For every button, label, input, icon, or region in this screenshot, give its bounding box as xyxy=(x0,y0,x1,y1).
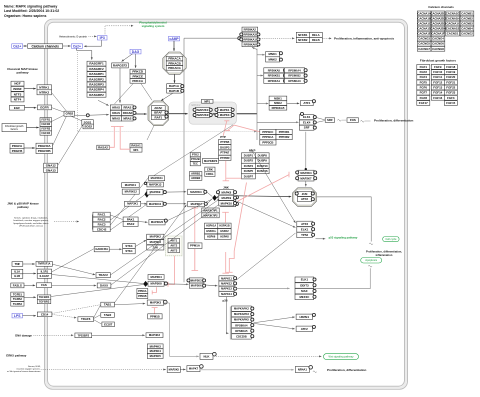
gene box DDIT3 p38target xyxy=(295,283,314,288)
gene box MAP3K8 xyxy=(148,281,164,286)
dotted arrow RSK to NFKB xyxy=(260,37,295,39)
wire ERK output main xyxy=(236,113,257,115)
inhibition DUSP to p38 diagonal xyxy=(226,183,246,273)
legend box FGF22 xyxy=(444,85,457,90)
label Heterotrimeric G-protein xyxy=(59,34,87,38)
legend box FGF9 xyxy=(431,65,444,70)
ligand box NTF4 xyxy=(11,97,24,102)
inhibition PPM1B to MAP3K3 xyxy=(152,308,158,314)
wire junction1 lines xyxy=(149,193,150,194)
svg-text:Fibroblast growth factors: Fibroblast growth factors xyxy=(420,58,457,62)
phospho circle MAP2K4 center xyxy=(204,190,207,193)
svg-text:PTK2: PTK2 xyxy=(192,153,199,157)
svg-text:MSK2: MSK2 xyxy=(274,101,282,105)
svg-text:PTPN5: PTPN5 xyxy=(220,140,229,144)
svg-text:MAP2K4: MAP2K4 xyxy=(300,171,312,175)
cell membrane inner line xyxy=(48,22,405,386)
svg-text:TP53: TP53 xyxy=(301,233,308,237)
gene box FOS xyxy=(347,118,359,123)
svg-text:Apoptosis: Apoptosis xyxy=(365,258,377,262)
svg-text:RASGRF2: RASGRF2 xyxy=(89,67,104,71)
wire FAS to DAXX xyxy=(52,285,97,287)
receptor box FGFR1 xyxy=(40,118,52,122)
svg-text:Ca2+: Ca2+ xyxy=(73,44,81,48)
label JNK xyxy=(223,185,230,189)
legend box CACNG4 xyxy=(431,36,445,41)
inhibition PPM1A to TAK1 xyxy=(192,208,199,243)
wire RAC to PAK xyxy=(110,215,122,220)
legend box FGF14 xyxy=(431,90,444,95)
phospho circle MNK2 xyxy=(279,58,282,61)
svg-text:heatshock, reactive oxygen spe: heatshock, reactive oxygen species, xyxy=(13,219,49,222)
wire RAC bracket xyxy=(91,215,93,230)
phospho circle MAP2K4 l xyxy=(296,171,299,174)
wire NTRK to GRB2 xyxy=(52,93,67,112)
inhibition HSP to JNK xyxy=(222,212,229,223)
gene box DUSP9 xyxy=(255,158,269,163)
gene box RPS6KA4 col xyxy=(232,323,252,328)
red wire DUSP to JNK tee xyxy=(226,177,241,179)
svg-text:RASA2: RASA2 xyxy=(98,146,108,150)
dashed vertical segment Ca2+ down xyxy=(77,52,79,132)
inhibition PTP to JNK xyxy=(223,161,230,181)
cell membrane outer line xyxy=(45,19,408,389)
transcription squiggle JNK output xyxy=(369,243,373,245)
wire p38 to MAPKAPK xyxy=(226,297,228,334)
inhibition PPP3 to ERK xyxy=(225,125,260,132)
legend box FGF16 xyxy=(431,95,444,100)
phospho circle RSK r1 xyxy=(257,33,260,36)
arrow MAP3K9 to MAP2K4 xyxy=(167,191,187,193)
legend box CACNA1B xyxy=(417,16,431,21)
transcription squiggle p38 output xyxy=(368,265,372,267)
arrow PKA to RAP1 xyxy=(174,74,176,83)
svg-text:BDNF: BDNF xyxy=(13,87,21,91)
gene box RAP1A xyxy=(167,84,182,89)
pathway link p53 signaling pathway xyxy=(329,235,358,239)
svg-text:MAP2K2: MAP2K2 xyxy=(197,113,209,117)
svg-text:Proliferation, inflammation, a: Proliferation, inflammation, anti-apopto… xyxy=(334,37,395,41)
phospho circle ELK1 top xyxy=(300,112,303,115)
svg-text:CACNA1D: CACNA1D xyxy=(417,27,431,31)
gene box ZAK triple xyxy=(147,245,164,250)
receptor box EGFR xyxy=(38,105,52,110)
gene box PTK2 xyxy=(190,153,200,157)
gene box MAP3K13 xyxy=(147,182,164,187)
gene box JUN xyxy=(298,191,312,196)
gene box MSK2 msk xyxy=(269,101,287,106)
phospho circle MAPK8 left xyxy=(216,191,219,194)
wire p38target to output xyxy=(314,268,370,288)
svg-text:Serum, cytotoxic drugs, irradi: Serum, cytotoxic drugs, irradiation, xyxy=(14,217,48,220)
gene box RPS6KB1 grid xyxy=(264,73,284,78)
phospho circle MAP3K5 xyxy=(235,196,238,199)
svg-text:RPS6KA4: RPS6KA4 xyxy=(288,68,301,72)
legend box CACNA1D xyxy=(417,26,431,31)
svg-text:DDIT3: DDIT3 xyxy=(300,284,309,288)
svg-text:FGF3: FGF3 xyxy=(447,96,455,100)
svg-text:ELK1: ELK1 xyxy=(301,227,309,231)
svg-text:AKT2: AKT2 xyxy=(170,244,177,248)
gene box DUSP2 xyxy=(242,158,256,163)
svg-text:CACNG4: CACNG4 xyxy=(432,37,444,41)
phospho circle MAP2K4 r xyxy=(314,171,317,174)
pathway link Phosphatidylinositol signaling system xyxy=(139,21,167,28)
gene box MNK2 xyxy=(266,57,280,62)
svg-text:MRAS: MRAS xyxy=(123,117,131,121)
svg-text:GRB2: GRB2 xyxy=(65,112,73,116)
transcription squiggle after FOS xyxy=(361,121,365,123)
gene box HSPA6 xyxy=(205,234,218,239)
svg-text:FGF22: FGF22 xyxy=(446,86,455,90)
input text DNA damage xyxy=(15,333,32,337)
svg-text:GNA13: GNA13 xyxy=(46,168,56,172)
ligand box IL1A xyxy=(12,269,23,274)
svg-text:MAP3K11: MAP3K11 xyxy=(151,176,164,180)
svg-text:MAX: MAX xyxy=(301,289,307,293)
gene box RPS6KA5 grid xyxy=(264,68,284,73)
gene box RASGRP3 (4) xyxy=(87,82,106,87)
gene box DUSP3 xyxy=(219,145,231,150)
svg-text:RPS6KA1: RPS6KA1 xyxy=(268,79,281,83)
svg-text:MKP: MKP xyxy=(249,149,255,153)
svg-text:ERK1/2: ERK1/2 xyxy=(192,103,201,107)
phospho circle JUN l xyxy=(295,192,298,195)
transcription squiggle NR4A1 xyxy=(313,371,317,373)
svg-text:SRF: SRF xyxy=(327,118,333,122)
phospho circle RPS6KA5 grid xyxy=(283,69,286,72)
arrow TP53 to p53 pathway xyxy=(316,238,326,240)
svg-text:FASLG: FASLG xyxy=(13,283,22,287)
svg-text:FGF8: FGF8 xyxy=(420,96,428,100)
phospho circle MAPK13 xyxy=(234,287,237,290)
svg-text:MAP3K1: MAP3K1 xyxy=(127,202,138,206)
svg-text:MSK1: MSK1 xyxy=(274,96,282,100)
wire GRB2 to Ras xyxy=(75,114,86,116)
legend box FGF19 xyxy=(444,70,457,75)
gene box NLK xyxy=(200,353,213,359)
gene box DUSP1 xyxy=(242,153,256,158)
phospho circle RPS6KA3 grid xyxy=(304,79,307,82)
phospho circle ELK1 p38target xyxy=(313,278,316,281)
ligand box IL1B xyxy=(12,274,23,279)
gene box MAPK12 xyxy=(219,281,234,286)
phospho circle RPS6KB2 grid xyxy=(304,74,307,77)
svg-text:NGF: NGF xyxy=(14,82,21,86)
scaffold box MAP3K7IP1 xyxy=(202,208,219,213)
svg-text:MAP3K9: MAP3K9 xyxy=(150,190,161,194)
arrow RASGRF to Ras xyxy=(98,100,109,105)
gene box GADD45A xyxy=(94,247,109,252)
receptor box NTRK2 xyxy=(37,90,52,95)
scaffold box MAP3K7IP2 xyxy=(202,213,219,218)
svg-text:ELK1: ELK1 xyxy=(303,115,311,119)
svg-text:KRAS: KRAS xyxy=(112,111,120,115)
svg-text:HRAS: HRAS xyxy=(112,106,120,110)
svg-text:Wnt signaling pathway: Wnt signaling pathway xyxy=(328,356,354,359)
gene box RPS6KA5 msk xyxy=(269,106,287,111)
complex AKT dotted box xyxy=(166,236,183,256)
gene box AKT1 xyxy=(168,238,180,243)
arrow MAP2K4 to octagon xyxy=(305,181,307,186)
svg-text:PPM1B: PPM1B xyxy=(150,314,160,318)
phospho circle JUN r xyxy=(311,192,314,195)
svg-text:MAPK14: MAPK14 xyxy=(221,292,232,296)
svg-text:FGF6: FGF6 xyxy=(420,86,428,90)
gene box MAP4K1 xyxy=(122,183,140,188)
phospho circle ELK4 elkcol xyxy=(313,121,316,124)
svg-text:Proliferation, differentiation: Proliferation, differentiation xyxy=(374,118,414,122)
wire MAP2K4 to diamond xyxy=(207,192,213,197)
receptor box PDGFRA xyxy=(36,143,53,148)
gene box RAC2 xyxy=(93,217,110,222)
svg-text:Calcium channels: Calcium channels xyxy=(428,5,454,9)
svg-text:CACNG5: CACNG5 xyxy=(418,42,430,46)
svg-text:MNK1: MNK1 xyxy=(268,52,277,56)
wire output elbow down xyxy=(370,197,372,242)
gene box MAP2K5 xyxy=(167,367,180,373)
svg-text:NFKB2: NFKB2 xyxy=(298,38,308,42)
gene box PTPRR xyxy=(219,155,231,160)
svg-text:RAPGEF2: RAPGEF2 xyxy=(113,64,128,68)
svg-text:CDC25B: CDC25B xyxy=(236,334,247,338)
gene box TP53BP2 xyxy=(75,333,92,338)
output text proliferation differentiation inflammation xyxy=(366,250,402,257)
arrow into Ras cluster xyxy=(90,114,109,116)
svg-text:SRF: SRF xyxy=(304,126,310,130)
inhibition PTP to p38 xyxy=(222,252,229,273)
svg-text:DUSP3: DUSP3 xyxy=(220,145,230,149)
gene box MAPK11 xyxy=(219,276,234,281)
gene box PTPN7 xyxy=(219,150,231,155)
arrow IL1 to IL1R xyxy=(23,273,36,275)
dotted arrow IP3 to phosphatidylinositol xyxy=(105,25,134,34)
wire ERK target bus vertical xyxy=(256,49,258,141)
gene box MAPK8 xyxy=(219,190,234,195)
svg-text:STK3: STK3 xyxy=(125,244,133,248)
arrow FGF to FGFR xyxy=(27,127,39,129)
wire IL1R to GADD45 xyxy=(52,249,94,272)
inhibition PTP to ERK xyxy=(223,121,229,136)
svg-text:PRKCE: PRKCE xyxy=(132,74,143,78)
svg-text:ATF2: ATF2 xyxy=(301,222,308,226)
wire IP3 to Ca2+ xyxy=(84,40,102,47)
gene box MAP2K3 xyxy=(189,278,203,283)
legend box FGF6 xyxy=(417,85,430,90)
svg-text:PRKCD: PRKCD xyxy=(132,70,144,74)
gene box HSPA1A xyxy=(205,223,218,228)
gene box PPP3R1 xyxy=(276,129,292,134)
svg-text:PAK2: PAK2 xyxy=(127,222,135,226)
gene box RELA xyxy=(309,32,322,37)
gene box MAP3K12 xyxy=(122,189,139,194)
phospho circle MAP2K1 r xyxy=(209,108,212,111)
phospho circle ELK1 elkcol xyxy=(313,116,316,119)
arrow Ca2+ to channels xyxy=(23,45,27,47)
arrow BDNF to NTRK xyxy=(24,88,36,90)
legend title Fibroblast growth factors xyxy=(420,58,457,62)
header organism text xyxy=(4,14,46,18)
channel label Calcium channels xyxy=(28,44,63,49)
gene box RAPGEF2 xyxy=(112,63,129,68)
wire TRAF6 to TAB2 xyxy=(94,315,101,319)
output text proliferation differentiation erk5 xyxy=(327,368,367,372)
svg-text:ELK1: ELK1 xyxy=(301,278,309,282)
svg-text:NTRK1: NTRK1 xyxy=(39,85,49,89)
ligand box PDGFB xyxy=(10,148,24,153)
gene box ARRB2 xyxy=(190,176,202,180)
svg-text:MAPK13: MAPK13 xyxy=(221,287,232,291)
svg-text:RASGRP1: RASGRP1 xyxy=(89,72,104,76)
gene box PRKACB xyxy=(166,61,183,66)
complex PKA octagon xyxy=(163,52,186,74)
gene box MAP2K7 xyxy=(298,176,314,181)
phospho circle MAPK7 xyxy=(200,365,204,369)
arrow FASLG to FAS xyxy=(24,284,35,286)
legend box FGF17 xyxy=(417,101,430,106)
legend box FGF4 xyxy=(417,75,430,80)
svg-text:RASGRP4: RASGRP4 xyxy=(89,88,104,92)
wire EGFR to GRB2 xyxy=(52,108,66,113)
inhibition DUSP to MAP2K4 pair xyxy=(238,172,289,201)
dotted arrow stress to RAC xyxy=(54,221,79,223)
gene box RASA2 xyxy=(97,145,109,150)
svg-text:CRKL: CRKL xyxy=(206,172,214,176)
svg-text:Organism: Homo sapiens: Organism: Homo sapiens xyxy=(4,14,46,18)
gene box PRKCD xyxy=(130,69,145,74)
svg-text:PTPN7: PTPN7 xyxy=(220,151,229,155)
phospho circle MAP3K7 xyxy=(204,202,207,205)
svg-text:MAPK11: MAPK11 xyxy=(221,276,232,280)
wire TGFBR to junction xyxy=(51,285,144,297)
wire MAP3K3 right xyxy=(164,302,170,304)
legend box CACNB3 xyxy=(460,21,474,26)
arrow bus to MNK xyxy=(257,54,265,56)
wire ERK to MAP3K11 diagonal xyxy=(153,125,234,177)
header modified text xyxy=(4,9,59,13)
arrow GADD45 to STK xyxy=(109,248,122,250)
gene box HSPA8 xyxy=(218,234,231,239)
gene box PPM1A b xyxy=(137,289,148,294)
svg-text:FGF23: FGF23 xyxy=(446,91,455,95)
receptor box FGFR2 xyxy=(40,122,52,126)
arrow bus to ELK col xyxy=(257,121,299,123)
svg-text:FGF16: FGF16 xyxy=(433,96,442,100)
svg-text:TGFB2: TGFB2 xyxy=(13,297,23,301)
svg-text:RAC3: RAC3 xyxy=(98,223,106,227)
inhibition AKT to MAP3K xyxy=(168,256,175,287)
wire ELK4 to SRF xyxy=(316,121,325,123)
circle on line to RSK xyxy=(238,37,241,40)
svg-text:DAG: DAG xyxy=(132,50,140,54)
svg-text:CACNG2: CACNG2 xyxy=(461,32,473,36)
svg-text:FGF13: FGF13 xyxy=(433,86,442,90)
legend box FGF15 xyxy=(444,101,457,106)
svg-text:DNA damage: DNA damage xyxy=(15,333,32,337)
gene box MAP2K4 center xyxy=(188,189,205,195)
gene box NFKB1 xyxy=(296,32,309,37)
legend box FGF7 xyxy=(417,90,430,95)
scaffold box TAB1 xyxy=(101,302,115,307)
svg-text:RPS6KA6: RPS6KA6 xyxy=(244,42,257,46)
section label ERK5 pathway xyxy=(6,353,26,357)
svg-text:RPS6KA3: RPS6KA3 xyxy=(244,32,257,36)
phospho circle MAP2K3 r xyxy=(203,279,206,282)
arrow TGFB to TGFBR xyxy=(24,296,36,298)
gene box SOS2 xyxy=(83,124,94,129)
legend box FGF1 xyxy=(417,65,430,70)
legend box CACNA1H xyxy=(446,16,460,21)
svg-text:MAPK8: MAPK8 xyxy=(221,190,231,194)
arrow into RSK column xyxy=(239,37,241,39)
svg-text:CACNB4: CACNB4 xyxy=(461,27,473,31)
svg-text:CACNA1S: CACNA1S xyxy=(446,27,460,31)
complex RAF octagon xyxy=(148,101,169,126)
legend box CACNA1C xyxy=(417,21,431,26)
metabolite Ca2+ extracellular xyxy=(12,44,23,49)
gene box PRKCA xyxy=(130,79,145,84)
wire diamond to JNK xyxy=(216,196,218,199)
svg-text:GADD45A: GADD45A xyxy=(95,247,108,251)
phospho circle TP53 target xyxy=(312,233,315,236)
svg-text:HSPA2: HSPA2 xyxy=(220,229,229,233)
arrow MAP3K10 to MAP2K7 xyxy=(167,203,187,205)
phospho circle MAP2K2 l xyxy=(193,113,196,116)
arrow RAPGEF2 down to Ras xyxy=(119,68,121,103)
svg-text:FGFR4: FGFR4 xyxy=(41,131,50,135)
svg-text:FGF10: FGF10 xyxy=(433,70,442,74)
svg-text:PPP3R2: PPP3R2 xyxy=(279,135,290,139)
dashed horizontal segment to PPP3 calcineurin xyxy=(78,131,257,133)
inhibition cap PPM1A to MAP2K3 xyxy=(192,270,199,272)
pathway link Cell cycle xyxy=(383,237,400,242)
svg-text:NTRK2: NTRK2 xyxy=(39,90,49,94)
svg-text:CACNA1F: CACNA1F xyxy=(431,32,445,36)
ligand box PDGFA xyxy=(10,144,24,149)
svg-text:TP53BP2: TP53BP2 xyxy=(78,333,90,337)
gene box DUSP4 xyxy=(242,163,256,168)
svg-text:MAP3K4: MAP3K4 xyxy=(150,275,162,279)
gtp circle NRAS row xyxy=(133,117,136,120)
legend box CACNA1G xyxy=(446,11,460,16)
inhibition NF1 to Ras xyxy=(117,127,130,150)
arrow EGF to EGFR xyxy=(25,107,37,109)
wire p38 to TP53 diag xyxy=(236,233,295,280)
ligand box TGFB1 xyxy=(11,292,24,297)
red line PPM1A down xyxy=(194,249,196,271)
gene box RPS6KA3 xyxy=(242,32,258,37)
svg-text:PPP3CB: PPP3CB xyxy=(262,141,273,145)
wire MAP2K7 to diamond xyxy=(207,199,212,204)
gene box RPS6KA4 grid xyxy=(284,68,304,73)
svg-text:MAP4K2: MAP4K2 xyxy=(149,333,161,337)
arrow PAK to MLK3 xyxy=(138,221,147,223)
label MKP xyxy=(249,149,255,153)
ligand box BDNF xyxy=(11,87,24,92)
svg-text:CACNG3: CACNG3 xyxy=(418,37,430,41)
svg-text:MAP2K1: MAP2K1 xyxy=(197,108,209,112)
wire octagon to nucleus right xyxy=(317,196,372,198)
gene box CDC42 xyxy=(93,227,110,232)
wire MAP3K8 to MAP2K3 xyxy=(167,283,187,285)
gene box RASGRF1 (0) xyxy=(87,61,106,66)
gene box KRAS xyxy=(110,110,121,115)
gene box RPS6KA6 xyxy=(242,42,258,47)
dotted wire CD14 to TAB1 xyxy=(52,305,100,314)
gene box PPP3CC xyxy=(260,129,276,134)
svg-text:ATF2: ATF2 xyxy=(301,197,308,201)
arrow cAMP to PKA xyxy=(173,41,175,51)
